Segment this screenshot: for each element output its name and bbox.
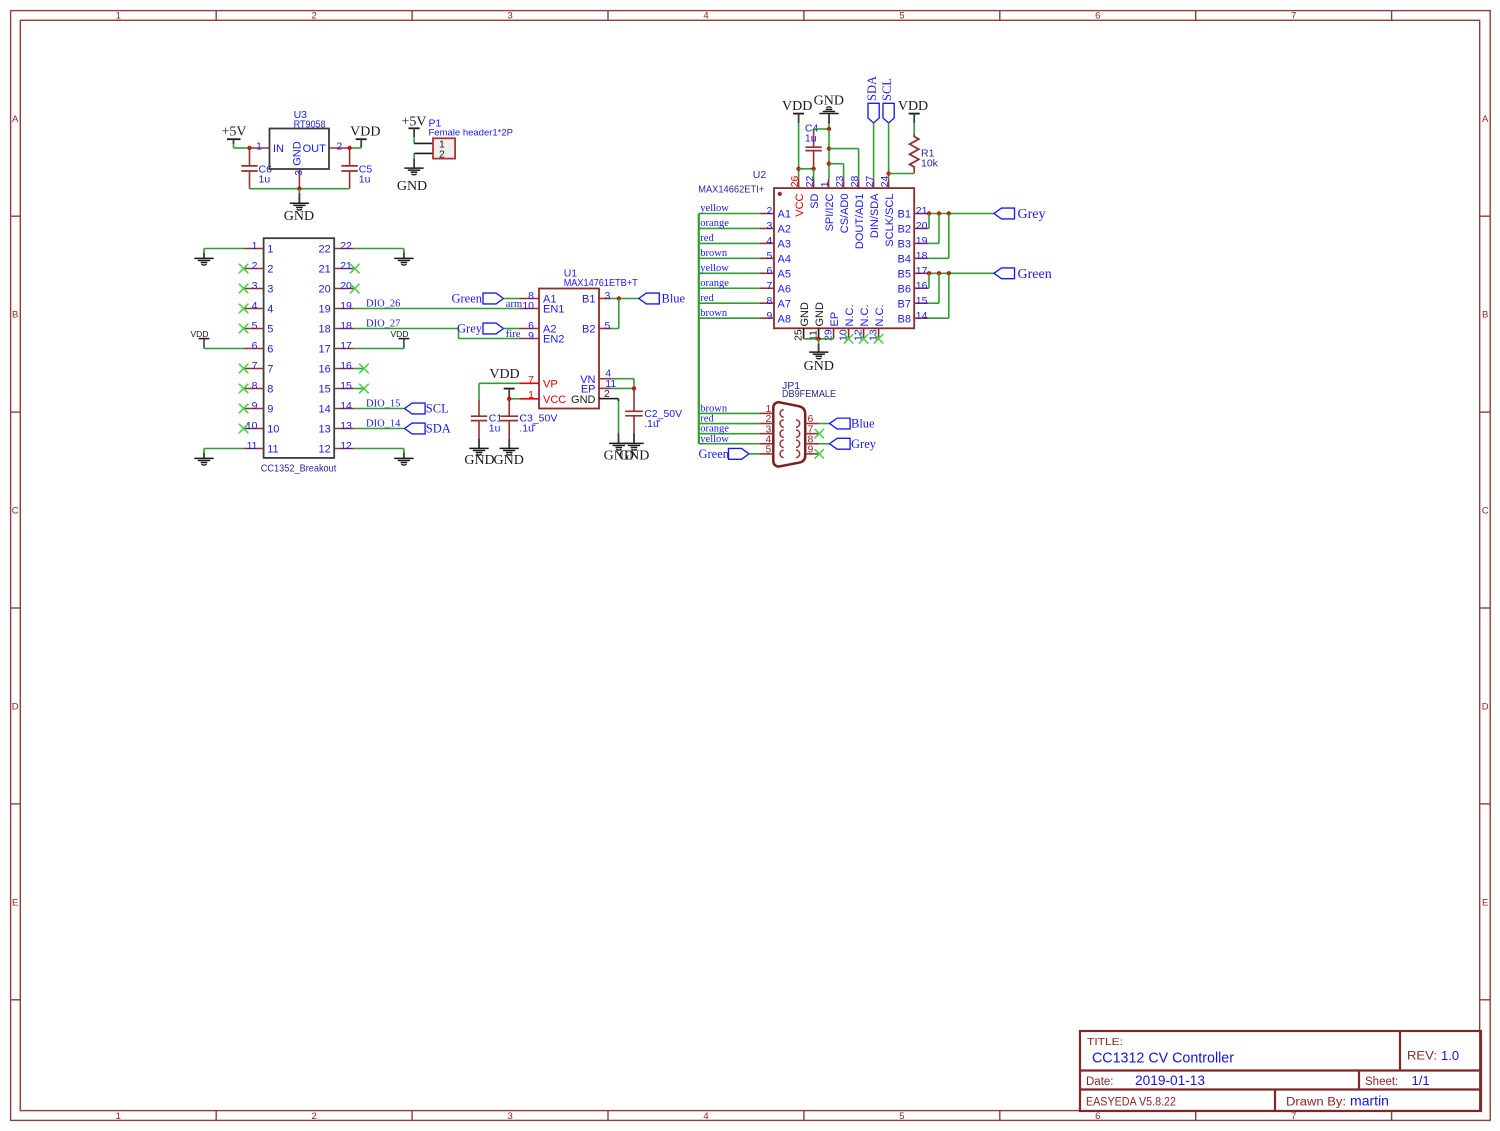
svg-text:VCC: VCC	[543, 394, 566, 406]
svg-text:N.C.: N.C.	[859, 305, 871, 327]
wire U2.B1 to Grey	[928, 213, 994, 215]
svg-text:1u: 1u	[805, 132, 817, 144]
svg-text:3: 3	[507, 11, 512, 22]
power flag VDD (R1)	[898, 99, 928, 134]
junction B1/B4	[947, 211, 951, 215]
resistor R1 10k	[910, 134, 919, 174]
svg-text:18: 18	[319, 324, 331, 336]
wire bus to U2.A5	[699, 272, 760, 274]
junction B5/B8	[947, 271, 951, 275]
label C2_50V .1u	[644, 408, 682, 430]
wire R1 to SCL	[889, 173, 915, 175]
svg-text:EN2: EN2	[543, 334, 564, 346]
svg-text:B5: B5	[898, 269, 911, 281]
svg-text:8: 8	[766, 295, 772, 307]
no-connect X (CC1352 pin 2)	[239, 264, 248, 273]
wire bus to JP1.1	[699, 412, 759, 414]
svg-text:Green: Green	[451, 292, 482, 306]
wire SD stub join	[813, 169, 815, 179]
svg-text:22: 22	[319, 244, 331, 256]
wire U1.VN to EP	[611, 379, 634, 389]
svg-text:9: 9	[267, 404, 273, 416]
svg-text:VDD: VDD	[191, 329, 209, 339]
junction B5/B7	[937, 271, 941, 275]
label P1 Female header1*2P	[429, 118, 514, 139]
no-connect X (U2 pin 10)	[844, 335, 853, 344]
net flag Green (JP1.5)	[698, 447, 749, 461]
wire CC1352.11 to gnd	[204, 448, 244, 450]
svg-text:IN: IN	[273, 143, 284, 155]
svg-text:21: 21	[340, 260, 352, 272]
svg-text:21: 21	[319, 264, 331, 276]
svg-text:SDA: SDA	[865, 76, 879, 101]
capacitor C1	[471, 399, 487, 448]
svg-text:2: 2	[604, 388, 610, 400]
svg-text:10: 10	[246, 420, 258, 432]
svg-text:martin: martin	[1350, 1094, 1389, 1109]
wire bus to U2.A4	[699, 257, 760, 259]
svg-text:Grey: Grey	[1018, 207, 1046, 222]
wire DIO_27 (CC1352.18 to U1.EN2)	[354, 329, 519, 339]
svg-text:VDD: VDD	[489, 367, 519, 382]
svg-text:3: 3	[267, 284, 273, 296]
svg-text:A6: A6	[778, 283, 791, 295]
junction U2 GND rail	[816, 337, 820, 341]
svg-text:orange: orange	[700, 278, 729, 289]
wire SCL to U2.SCLK/SCL	[888, 123, 890, 179]
ground symbol (CC1352 pin22)	[394, 249, 413, 266]
svg-text:1: 1	[256, 140, 262, 152]
svg-text:A2: A2	[778, 224, 791, 236]
svg-text:2: 2	[337, 140, 343, 152]
svg-text:6: 6	[267, 344, 273, 356]
svg-text:5: 5	[899, 1111, 904, 1122]
label JP1 DB9FEMALE	[782, 380, 836, 400]
wire GND to U2.DOUT/AD1	[829, 149, 859, 179]
wire Green to JP1.5	[749, 453, 759, 455]
svg-text:3: 3	[507, 1111, 512, 1122]
wire bus to U2.A6	[699, 287, 760, 289]
svg-text:A1: A1	[778, 209, 791, 221]
svg-text:N.C.: N.C.	[874, 305, 886, 327]
junction VCC/C4	[796, 167, 800, 171]
svg-text:U2: U2	[753, 169, 767, 181]
junction U3.GND rail	[297, 187, 301, 191]
svg-text:GND: GND	[284, 209, 314, 224]
svg-text:3: 3	[605, 290, 611, 302]
svg-text:2: 2	[312, 1111, 317, 1122]
svg-text:1.0: 1.0	[1441, 1048, 1459, 1063]
svg-text:yellow: yellow	[700, 434, 729, 445]
net flag Grey (U1.A2)	[457, 322, 504, 336]
no-connect X (CC1352 pin 3)	[239, 284, 248, 293]
svg-text:DIO_26: DIO_26	[366, 298, 400, 309]
svg-text:14: 14	[319, 404, 331, 416]
capacitor C6	[241, 148, 257, 189]
svg-text:4: 4	[703, 1111, 708, 1122]
svg-text:Grey: Grey	[457, 322, 483, 336]
svg-text:15: 15	[916, 295, 928, 307]
svg-text:B2: B2	[582, 324, 595, 336]
wire U3.OUT to VDD	[350, 147, 362, 149]
svg-text:+5V: +5V	[401, 115, 426, 130]
svg-text:C: C	[1482, 506, 1489, 517]
svg-text:N.C.: N.C.	[844, 305, 856, 327]
svg-text:MAX14662ETI+: MAX14662ETI+	[698, 183, 764, 195]
svg-text:1: 1	[116, 11, 121, 22]
svg-text:13: 13	[319, 424, 331, 436]
junction GND/DOUT	[827, 146, 831, 150]
svg-text:1: 1	[116, 1111, 121, 1122]
wire VCC to SD rail	[799, 168, 814, 170]
power flag VDD (U3 output)	[350, 125, 380, 149]
no-connect X (CC1352 pin 8)	[239, 384, 248, 393]
wire GND to C4	[814, 128, 829, 130]
svg-text:EASYEDA V5.8.22: EASYEDA V5.8.22	[1086, 1097, 1176, 1109]
wire JP1.6 to Blue	[819, 423, 829, 425]
svg-text:Sheet:: Sheet:	[1365, 1076, 1398, 1088]
capacitor C2_50V	[625, 388, 643, 443]
svg-text:7: 7	[1291, 1111, 1296, 1122]
svg-text:CC1312 CV Controller: CC1312 CV Controller	[1092, 1051, 1234, 1067]
wire U1.B1 to Blue	[611, 298, 639, 300]
svg-text:red: red	[700, 233, 714, 244]
svg-text:9: 9	[766, 310, 772, 322]
net flag Green (U2.B5)	[994, 267, 1052, 282]
svg-text:13: 13	[340, 420, 352, 432]
wire VDD to CC1352.6	[204, 348, 244, 350]
svg-text:14: 14	[916, 310, 928, 322]
wire bus to JP1.4	[699, 443, 759, 445]
svg-text:B8: B8	[898, 313, 911, 325]
svg-text:9: 9	[528, 330, 534, 342]
svg-text:DIO_15: DIO_15	[366, 398, 400, 409]
label Date 2019-01-13	[1086, 1073, 1205, 1088]
bus to DB9	[698, 214, 700, 444]
wire bus to U2.A7	[699, 302, 760, 304]
svg-text:GND: GND	[397, 179, 427, 194]
no-connect X (CC1352 pin 9)	[239, 404, 248, 413]
wire B8 join	[928, 273, 949, 318]
svg-text:B4: B4	[898, 254, 911, 266]
svg-text:2: 2	[312, 11, 317, 22]
svg-text:VDD: VDD	[782, 99, 812, 114]
svg-text:Drawn By:: Drawn By:	[1286, 1097, 1346, 1109]
net flag Green (U1.A1)	[451, 292, 503, 306]
label U1 MAX14761ETB+T	[564, 268, 639, 289]
svg-text:17: 17	[916, 265, 928, 277]
wire Green to U1.A1	[504, 298, 519, 300]
svg-text:4: 4	[252, 300, 258, 312]
wire CC1352.22 to gnd	[354, 248, 404, 250]
svg-text:4: 4	[267, 304, 273, 316]
svg-text:5: 5	[267, 324, 273, 336]
svg-text:GND: GND	[292, 141, 304, 166]
junction +5V/C6	[247, 146, 251, 150]
wire Grey to U1.A2	[504, 328, 519, 330]
svg-text:16: 16	[916, 280, 928, 292]
svg-text:RT9058: RT9058	[294, 119, 326, 131]
label Sheet 1/1	[1365, 1073, 1430, 1088]
svg-text:VCC: VCC	[794, 193, 806, 216]
svg-text:SD: SD	[809, 193, 821, 208]
svg-text:7: 7	[267, 364, 273, 376]
svg-text:B2: B2	[898, 224, 911, 236]
svg-text:VP: VP	[543, 379, 558, 391]
svg-text:A5: A5	[778, 269, 791, 281]
wire bus to JP1.2	[699, 423, 759, 425]
wire bus to U2.A8	[699, 317, 760, 319]
wire U2.B5 to Green	[928, 272, 994, 274]
wire CC1352.17 to VDD	[354, 348, 404, 350]
svg-text:1u: 1u	[359, 174, 371, 186]
no-connect X (CC1352 pin 5)	[239, 324, 248, 333]
wire +5V to P1.1	[414, 142, 433, 144]
wire DIO_26 (CC1352.19 to U1.EN1)	[354, 308, 519, 310]
svg-text:17: 17	[340, 340, 352, 352]
IC U2 MAX14662ETI+ symbol	[760, 175, 928, 341]
wire GND to U2.CS/AD0	[829, 164, 844, 179]
svg-text:GND: GND	[464, 453, 494, 468]
svg-text:15: 15	[319, 384, 331, 396]
net flag SCL	[405, 402, 449, 416]
label C3_50V .1u	[519, 412, 557, 434]
no-connect wire and X (CC1352 pin 15)	[354, 384, 368, 393]
title block	[1080, 1031, 1481, 1111]
svg-text:REV:: REV:	[1407, 1051, 1437, 1063]
svg-text:Green: Green	[698, 447, 729, 461]
svg-text:GND: GND	[604, 449, 634, 464]
svg-text:18: 18	[916, 250, 928, 262]
svg-text:yellow: yellow	[700, 203, 729, 214]
svg-text:CC1352_Breakout: CC1352_Breakout	[261, 463, 337, 475]
wire U1.GND to ground	[611, 399, 619, 444]
net flag SDA (U2.DIN/SDA)	[865, 76, 879, 123]
svg-text:1: 1	[267, 244, 273, 256]
svg-text:D: D	[12, 702, 19, 713]
svg-text:EN1: EN1	[543, 304, 564, 316]
svg-text:5: 5	[765, 444, 771, 456]
svg-text:+5V: +5V	[221, 125, 246, 140]
power flag VDD (CC1352 pin17)	[391, 329, 410, 349]
svg-text:EP: EP	[829, 312, 841, 327]
svg-text:6: 6	[1095, 11, 1100, 22]
svg-text:brown: brown	[700, 248, 728, 259]
svg-text:20: 20	[319, 284, 331, 296]
wire DIO_14 (CC1352.13 to SDA)	[354, 428, 404, 430]
label U3 RT9058	[294, 109, 326, 131]
wire B3 join	[928, 214, 939, 244]
ground flag GND (U2 top)	[814, 94, 844, 130]
wire bus to U2.A3	[699, 242, 760, 244]
svg-text:10: 10	[267, 424, 279, 436]
junction B5/B6	[927, 271, 931, 275]
svg-text:3: 3	[766, 220, 772, 232]
wire VDD to U1.VCC	[509, 398, 519, 400]
svg-text:red: red	[700, 293, 714, 304]
net flag SDA	[405, 422, 451, 436]
svg-text:brown: brown	[700, 308, 728, 319]
svg-text:6: 6	[766, 265, 772, 277]
no-connect X (CC1352 pin 21)	[351, 264, 360, 273]
wire VDD to U2.VCC	[798, 126, 800, 179]
svg-text:A8: A8	[778, 313, 791, 325]
svg-text:VDD: VDD	[898, 99, 928, 114]
label C6 1u	[259, 164, 273, 186]
IC CC1352_Breakout symbol	[244, 238, 355, 458]
svg-text:25: 25	[793, 329, 805, 341]
wire B7 join	[928, 273, 939, 303]
svg-text:3: 3	[252, 280, 258, 292]
svg-text:7: 7	[1291, 11, 1296, 22]
ground symbol (CC1352 pin11)	[194, 449, 213, 466]
IC U1 MAX14761ETB+T symbol	[519, 289, 616, 409]
junction OUT/C5	[347, 146, 351, 150]
no-connect X (CC1352 pin 7)	[239, 364, 248, 373]
svg-text:DIO_14: DIO_14	[366, 418, 401, 429]
wire B2 join	[927, 214, 930, 229]
wire B6 join	[927, 273, 930, 288]
junction B1/B2	[927, 211, 931, 215]
svg-text:SCL: SCL	[426, 402, 449, 416]
power flag +5V (U3 input)	[221, 125, 246, 149]
svg-text:1u: 1u	[489, 422, 501, 434]
wire B1 to B2	[611, 299, 619, 329]
svg-text:2: 2	[766, 205, 772, 217]
wire CC1352.12 to gnd	[354, 448, 404, 450]
svg-text:B1: B1	[898, 209, 911, 221]
svg-text:7: 7	[252, 360, 258, 372]
svg-text:B: B	[12, 310, 18, 321]
svg-text:2: 2	[439, 148, 445, 160]
svg-text:DIO_27: DIO_27	[366, 318, 400, 329]
svg-text:SCLK/SCL: SCLK/SCL	[884, 194, 896, 247]
svg-text:Blue: Blue	[851, 417, 875, 431]
svg-text:3: 3	[293, 170, 305, 176]
svg-text:10k: 10k	[921, 158, 939, 170]
svg-text:fire: fire	[506, 329, 521, 340]
svg-text:16: 16	[340, 360, 352, 372]
wire +5V to U3.IN	[234, 147, 250, 149]
svg-text:OUT: OUT	[303, 143, 327, 155]
junction VCC/C3	[507, 397, 511, 401]
svg-text:21: 21	[916, 205, 928, 217]
svg-text:2: 2	[252, 260, 258, 272]
power flag VDD (CC1352 pin6)	[191, 329, 210, 349]
svg-text:7: 7	[766, 280, 772, 292]
wire SDA to U2.DIN/SDA	[873, 123, 875, 179]
svg-text:20: 20	[916, 220, 928, 232]
svg-text:E: E	[1482, 897, 1488, 908]
connector P1 Female header 1x2 symbol	[433, 138, 455, 160]
svg-text:1: 1	[252, 240, 258, 252]
svg-text:12: 12	[319, 444, 331, 456]
no-connect wire and X (CC1352 pin 16)	[354, 364, 368, 373]
svg-text:B3: B3	[898, 239, 911, 251]
wire U2 GND pins rail	[804, 338, 834, 340]
svg-text:B1: B1	[582, 294, 595, 306]
svg-text:A: A	[1482, 114, 1489, 125]
net flag Grey (JP1.8)	[830, 437, 877, 451]
junction B1/B3	[937, 211, 941, 215]
svg-text:20: 20	[340, 280, 352, 292]
wire B4 join	[928, 214, 949, 259]
svg-text:11: 11	[267, 444, 278, 456]
ground symbol (C1)	[464, 448, 494, 468]
svg-text:17: 17	[319, 344, 331, 356]
wire P1.2 to GND	[414, 153, 433, 168]
svg-text:B: B	[1482, 310, 1488, 321]
svg-text:2: 2	[267, 264, 273, 276]
junction GND/C4	[827, 127, 831, 131]
svg-text:A4: A4	[778, 254, 791, 266]
svg-text:E: E	[12, 897, 18, 908]
svg-text:8: 8	[252, 380, 258, 392]
no-connect X (JP1.7)	[815, 429, 824, 438]
wire bus to U2.A2	[699, 227, 760, 229]
svg-text:SCL: SCL	[880, 78, 894, 101]
net flag SCL (U2.SCLK/SCL)	[880, 78, 894, 123]
svg-text:16: 16	[319, 364, 331, 376]
svg-text:D: D	[1482, 702, 1489, 713]
svg-text:14: 14	[340, 400, 352, 412]
svg-text:9: 9	[808, 444, 814, 456]
svg-text:.1u: .1u	[519, 422, 534, 434]
ground symbol GND (U3)	[284, 189, 314, 224]
svg-text:12: 12	[340, 440, 352, 452]
svg-text:19: 19	[319, 304, 331, 316]
svg-text:TITLE:: TITLE:	[1087, 1036, 1123, 1048]
svg-text:VDD: VDD	[350, 125, 380, 140]
junction GND/CS	[827, 162, 831, 166]
svg-text:MAX14761ETB+T: MAX14761ETB+T	[564, 277, 639, 289]
svg-text:15: 15	[340, 380, 352, 392]
IC U3 RT9058 symbol	[250, 129, 350, 189]
svg-text:yellow: yellow	[700, 263, 729, 274]
svg-text:4: 4	[766, 235, 772, 247]
svg-text:8: 8	[267, 384, 273, 396]
ground symbol (C2)	[619, 443, 649, 463]
junction B1/B2	[617, 296, 621, 300]
wire CC1352.1 to gnd	[204, 248, 244, 250]
svg-text:1u: 1u	[259, 174, 271, 186]
svg-text:11: 11	[247, 440, 258, 452]
svg-text:arm: arm	[506, 299, 522, 310]
svg-text:Grey: Grey	[851, 437, 877, 451]
junction SCL/R1	[886, 171, 890, 175]
svg-text:orange: orange	[700, 218, 729, 229]
svg-text:5: 5	[252, 320, 258, 332]
svg-text:DOUT/AD1: DOUT/AD1	[854, 194, 866, 250]
label REV 1.0	[1407, 1048, 1459, 1063]
svg-text:1: 1	[528, 389, 534, 401]
svg-text:22: 22	[340, 240, 352, 252]
wire bus to U2.A1	[699, 213, 760, 215]
ground symbol (C3)	[494, 448, 524, 468]
svg-text:5: 5	[899, 11, 904, 22]
wire JP1.8 to Grey	[819, 443, 829, 445]
svg-text:B6: B6	[898, 283, 911, 295]
svg-text:9: 9	[252, 400, 258, 412]
no-connect X (CC1352 pin 10)	[239, 424, 248, 433]
capacitor C4	[805, 129, 821, 169]
capacitor C5	[341, 148, 357, 189]
power flag VDD (U1)	[489, 367, 519, 399]
ground symbol (U2 bottom)	[804, 339, 834, 374]
svg-text:18: 18	[340, 320, 352, 332]
ground symbol (CC1352 pin12)	[394, 449, 413, 466]
svg-text:5: 5	[605, 320, 611, 332]
